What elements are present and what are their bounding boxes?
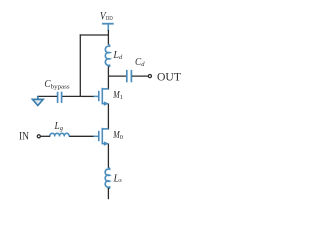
wire rail Ld to M1 drain (107, 67, 109, 90)
transistor M0 (99, 128, 109, 145)
wire top horizontal (80, 34, 109, 36)
wire VDD stem to Ld (107, 30, 109, 45)
ground (33, 96, 44, 106)
svg-text:VDD: VDD (100, 8, 113, 22)
wire Cbypass to bias rail (62, 95, 80, 97)
inductor Lg (50, 133, 69, 136)
wire M0 gate (69, 135, 95, 137)
svg-text:IN: IN (19, 128, 29, 142)
transistor M1 source arrow (104, 101, 109, 105)
wire M1 source to M0 drain (107, 104, 109, 130)
capacitor Cbypass (58, 92, 62, 103)
svg-text:M0: M0 (112, 130, 123, 141)
wire IN terminal to Lg (40, 135, 50, 137)
wire Ls to bottom edge (107, 188, 109, 199)
capacitor Cd (127, 70, 132, 82)
inductor Ls (105, 168, 110, 189)
wire Cbypass to ground (38, 95, 57, 97)
svg-text:Ld: Ld (112, 49, 123, 61)
wire M1 gate (80, 95, 94, 97)
inductor Ld (105, 45, 109, 67)
wire M0 source to Ls (107, 144, 109, 168)
wire left bias rail (79, 34, 81, 96)
transistor M1 gate lead (94, 95, 99, 97)
wire Cd to OUT terminal (132, 75, 149, 77)
node IN terminal (37, 135, 40, 138)
svg-text:Cbypass: Cbypass (44, 78, 70, 90)
svg-text:Cd: Cd (135, 56, 145, 68)
svg-text:Lg: Lg (54, 120, 64, 132)
node OUT terminal (148, 75, 151, 78)
transistor M0 gate lead (94, 135, 99, 137)
transistor M1 (99, 88, 109, 105)
power VDD symbol (102, 24, 114, 31)
svg-text:M1: M1 (112, 90, 123, 101)
svg-text:OUT: OUT (157, 69, 182, 83)
wire branch to Cd (108, 75, 126, 77)
transistor M0 source arrow (104, 141, 109, 145)
svg-text:Ls: Ls (113, 172, 123, 184)
